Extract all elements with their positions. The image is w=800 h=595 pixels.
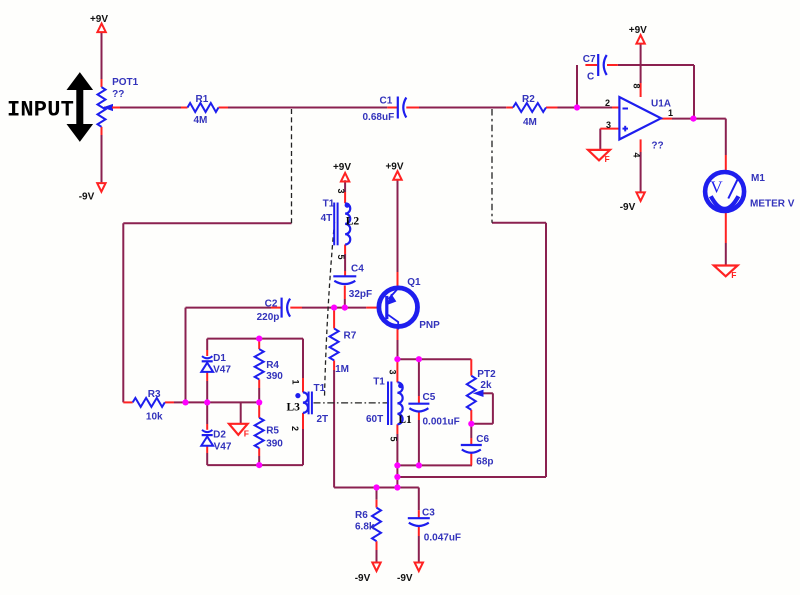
svg-text:??: ?? (112, 89, 124, 100)
svg-text:4M: 4M (523, 117, 537, 128)
svg-text:+9V: +9V (629, 25, 647, 36)
svg-text:1: 1 (291, 380, 301, 385)
svg-text:3: 3 (336, 189, 346, 194)
svg-text:L2: L2 (346, 215, 360, 227)
svg-text:R2: R2 (522, 94, 535, 105)
svg-text:C6: C6 (476, 434, 489, 445)
svg-text:220p: 220p (257, 312, 280, 323)
svg-text:8: 8 (631, 84, 641, 89)
svg-text:2: 2 (290, 426, 300, 431)
svg-text:R7: R7 (344, 331, 357, 342)
svg-text:6.8k: 6.8k (355, 522, 375, 533)
svg-text:2: 2 (605, 98, 610, 108)
svg-text:INPUT: INPUT (7, 98, 74, 123)
svg-text:C7: C7 (583, 54, 596, 65)
svg-text:V47: V47 (213, 364, 231, 375)
svg-text:METER V: METER V (750, 199, 795, 210)
svg-text:V47: V47 (214, 442, 232, 453)
svg-text:R6: R6 (355, 510, 368, 521)
svg-text:5: 5 (388, 437, 398, 442)
svg-text:0.68uF: 0.68uF (363, 112, 395, 123)
svg-text:PT2: PT2 (477, 369, 496, 380)
svg-text:C: C (587, 72, 594, 83)
svg-text:F: F (244, 428, 249, 438)
svg-text:4M: 4M (194, 115, 208, 126)
svg-text:V: V (710, 178, 723, 197)
svg-text:R4: R4 (266, 360, 279, 371)
svg-text:4T: 4T (321, 213, 333, 224)
svg-text:0.001uF: 0.001uF (423, 416, 460, 427)
svg-text:R5: R5 (266, 426, 279, 437)
svg-text:0.047uF: 0.047uF (424, 532, 461, 543)
svg-text:R1: R1 (196, 94, 209, 105)
svg-text:??: ?? (651, 141, 663, 152)
svg-text:C3: C3 (422, 508, 435, 519)
svg-text:4: 4 (631, 153, 641, 158)
svg-text:390: 390 (266, 371, 283, 382)
svg-text:-9V: -9V (620, 202, 636, 213)
svg-text:M1: M1 (751, 173, 765, 184)
svg-text:-9V: -9V (397, 573, 413, 584)
svg-text:-9V: -9V (355, 573, 371, 584)
svg-text:R3: R3 (148, 389, 161, 400)
svg-text:+9V: +9V (333, 162, 351, 173)
svg-text:-9V: -9V (79, 192, 95, 203)
svg-text:2T: 2T (317, 414, 329, 425)
svg-text:T1: T1 (373, 376, 385, 387)
svg-text:F: F (731, 270, 736, 280)
svg-text:68p: 68p (476, 456, 493, 467)
svg-text:+9V: +9V (385, 162, 403, 173)
svg-text:2k: 2k (480, 380, 492, 391)
svg-text:5: 5 (336, 255, 346, 260)
svg-text:+9V: +9V (90, 14, 108, 25)
svg-text:1: 1 (668, 108, 673, 118)
svg-text:T1: T1 (314, 383, 326, 394)
svg-text:32pF: 32pF (349, 289, 372, 300)
svg-text:D2: D2 (213, 430, 226, 441)
svg-text:L1: L1 (398, 414, 412, 426)
svg-text:1M: 1M (335, 364, 349, 375)
svg-text:C4: C4 (351, 264, 364, 275)
svg-text:C5: C5 (423, 392, 436, 403)
svg-text:T1: T1 (323, 199, 335, 210)
svg-text:3: 3 (606, 120, 611, 130)
svg-text:L3: L3 (287, 402, 301, 414)
svg-text:390: 390 (266, 439, 283, 450)
svg-text:PNP: PNP (419, 320, 440, 331)
svg-text:POT1: POT1 (112, 77, 139, 88)
svg-text:D1: D1 (213, 353, 226, 364)
svg-text:10k: 10k (146, 412, 163, 423)
svg-text:Q1: Q1 (407, 277, 421, 288)
svg-text:60T: 60T (366, 414, 383, 425)
svg-text:C2: C2 (265, 299, 278, 310)
svg-text:3: 3 (387, 370, 397, 375)
svg-text:F: F (605, 154, 610, 164)
svg-text:C1: C1 (380, 96, 393, 107)
